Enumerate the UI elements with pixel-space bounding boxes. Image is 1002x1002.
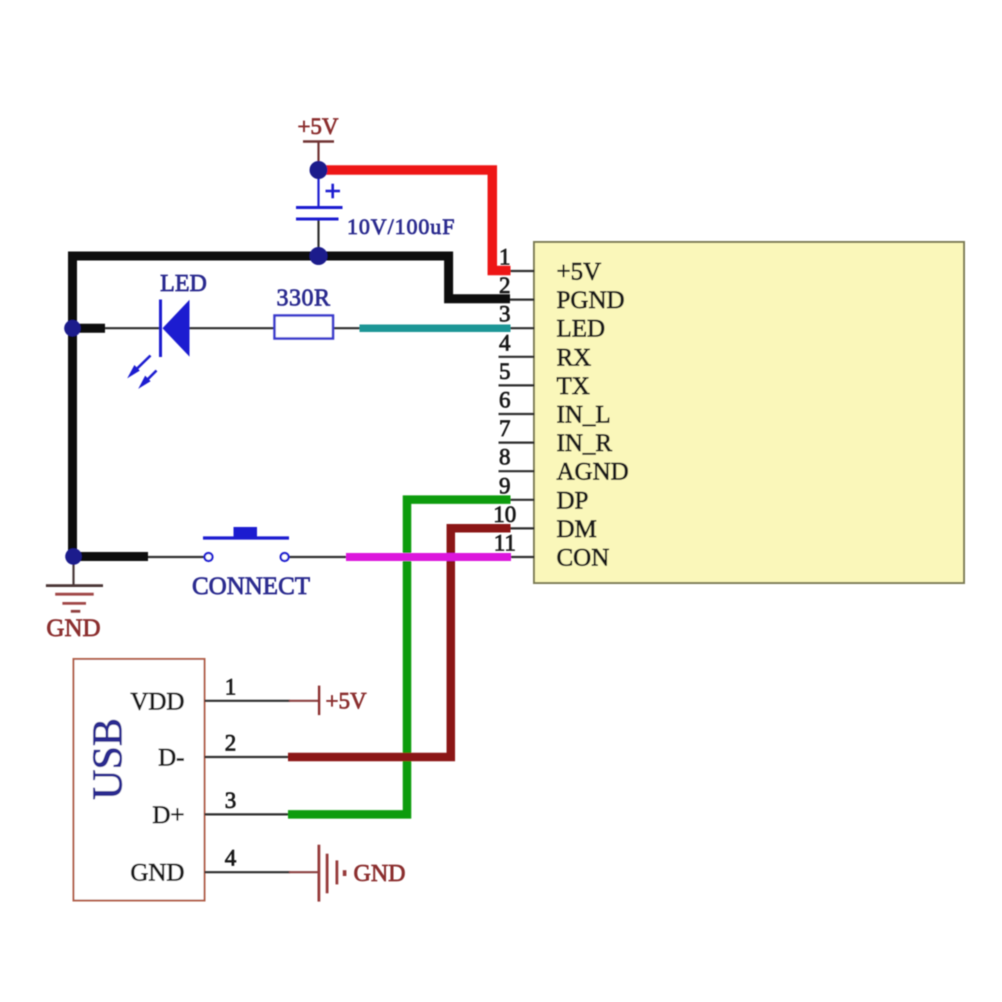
LED D1 light arrow 2	[140, 371, 157, 388]
svg-text:IN_L: IN_L	[557, 402, 611, 429]
svg-text:CONNECT: CONNECT	[192, 573, 310, 600]
svg-text:D-: D-	[158, 745, 184, 772]
IC U1 pin 9 stub wire	[499, 499, 535, 501]
wire: thick black stub at LED node	[73, 324, 106, 333]
IC U1 pin 5 stub wire	[499, 384, 535, 386]
svg-text:2: 2	[225, 731, 237, 756]
svg-text:LED: LED	[557, 316, 606, 343]
switch S1 left terminal	[205, 553, 213, 561]
svg-text:4: 4	[499, 330, 511, 355]
svg-text:+5V: +5V	[326, 689, 367, 714]
svg-text:330R: 330R	[276, 286, 330, 312]
capacitor C1 plus sign	[326, 184, 341, 199]
svg-text:PGND: PGND	[557, 287, 625, 314]
IC U1 pin 4 stub wire	[499, 356, 535, 358]
wire: green DP to USB D+	[288, 500, 511, 815]
wire: thick black +5V rail to PGND pin 2	[319, 256, 511, 299]
svg-text:+5V: +5V	[297, 114, 338, 139]
svg-text:8: 8	[499, 445, 511, 470]
wire: teal LED net to pin 3	[360, 324, 511, 332]
USB connector J1 body	[74, 659, 205, 901]
wire: LED cathode to resistor	[189, 327, 275, 329]
IC U1 pin 7 stub wire	[499, 442, 535, 444]
svg-text:11: 11	[494, 531, 516, 556]
svg-text:TX: TX	[557, 373, 590, 400]
svg-text:IN_R: IN_R	[557, 430, 613, 457]
wire: USB GND to ground bar (red tint)	[289, 871, 318, 873]
IC U1 pin 3 stub wire	[499, 327, 535, 329]
USB pin 2 stub wire	[205, 756, 293, 758]
svg-text:1: 1	[225, 674, 237, 699]
svg-text:D+: D+	[152, 802, 184, 829]
USB pin 4 stub wire	[205, 871, 291, 873]
svg-text:6: 6	[499, 388, 511, 413]
IC U1 pin 1 stub wire	[499, 270, 535, 272]
IC U1 body	[534, 242, 964, 583]
wire: node to LED anode	[100, 327, 162, 329]
svg-text:CON: CON	[557, 545, 610, 572]
USB pin 1 stub wire	[205, 700, 291, 702]
wire: resistor to LED net	[333, 327, 362, 329]
wire: magenta CON net to pin 11	[346, 553, 511, 561]
LED D1 light arrow 1	[129, 356, 151, 378]
svg-text:10V/100uF: 10V/100uF	[347, 214, 455, 239]
svg-text:+5V: +5V	[557, 259, 602, 286]
switch S1 right terminal	[281, 553, 289, 561]
ground symbol (USB GND)	[317, 845, 320, 902]
wire: ground rail to switch	[146, 556, 205, 558]
power symbol +5V (top)	[303, 140, 334, 143]
wire: switch to CON net	[288, 556, 346, 558]
wire: capacitor bottom plate to ground rail	[317, 220, 319, 252]
svg-text:DP: DP	[557, 487, 589, 514]
USB pin 3 stub wire	[205, 813, 293, 815]
wire: +5V node to capacitor top plate	[317, 172, 319, 207]
wire: USB VDD to +5V bar (red tint)	[289, 700, 318, 702]
power symbol +5V (USB VDD)	[318, 686, 320, 716]
svg-text:AGND: AGND	[557, 459, 629, 486]
node: ground junction	[65, 548, 82, 565]
IC U1 pin 11 stub wire	[499, 556, 535, 558]
svg-text:VDD: VDD	[130, 688, 184, 715]
IC U1 pin 2 stub wire	[499, 299, 535, 301]
svg-text:3: 3	[225, 788, 237, 813]
wire: dark red DM to USB D-	[288, 528, 511, 757]
IC U1 pin 6 stub wire	[499, 413, 535, 415]
svg-text:3: 3	[499, 302, 511, 327]
ground symbol (left)	[46, 584, 103, 587]
svg-text:GND: GND	[130, 860, 184, 887]
svg-text:4: 4	[225, 846, 237, 871]
node: +5V junction	[310, 161, 328, 179]
svg-text:GND: GND	[46, 615, 100, 642]
LED D1 cathode bar	[159, 300, 162, 358]
LED D1 triangle	[163, 300, 190, 357]
svg-text:LED: LED	[160, 271, 207, 297]
switch S1 actuator bar	[203, 536, 289, 539]
node: LED branch junction	[64, 320, 81, 337]
svg-text:DM: DM	[557, 516, 597, 543]
svg-text:7: 7	[499, 416, 511, 441]
svg-text:USB: USB	[86, 718, 132, 800]
capacitor C1 bottom plate	[296, 218, 339, 221]
wire: thick black ground rail (left/top)	[73, 256, 319, 557]
capacitor C1 top plate	[296, 206, 343, 209]
wire: +5V bar to node	[317, 142, 319, 165]
svg-text:RX: RX	[557, 344, 592, 371]
svg-text:5: 5	[499, 359, 511, 384]
wire: ground node drop	[72, 560, 74, 585]
svg-text:10: 10	[493, 502, 516, 527]
node: ground rail / capacitor junction	[310, 247, 328, 265]
IC U1 pin 10 stub wire	[499, 527, 535, 529]
svg-text:2: 2	[499, 273, 511, 298]
IC U1 pin 8 stub wire	[499, 470, 535, 472]
switch S1 button bump	[234, 527, 258, 538]
svg-text:9: 9	[499, 473, 511, 498]
svg-text:1: 1	[499, 245, 511, 270]
svg-text:GND: GND	[354, 861, 406, 887]
resistor R1 330R body	[275, 316, 334, 339]
wire: red +5V to pin 1	[320, 170, 511, 271]
